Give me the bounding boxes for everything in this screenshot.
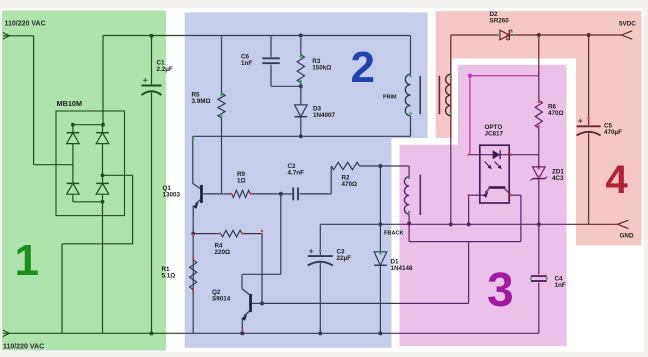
svg-text:1: 1 xyxy=(15,236,39,285)
svg-text:1N4007: 1N4007 xyxy=(313,112,336,119)
svg-text:GND: GND xyxy=(620,233,634,240)
svg-text:2: 2 xyxy=(351,43,375,92)
svg-text:S9014: S9014 xyxy=(212,296,231,303)
svg-text:MB10M: MB10M xyxy=(57,99,83,108)
svg-text:3: 3 xyxy=(487,264,514,317)
svg-text:110/220 VAC: 110/220 VAC xyxy=(3,344,44,351)
svg-text:13003: 13003 xyxy=(163,192,181,199)
svg-text:5VDC: 5VDC xyxy=(619,20,636,27)
svg-text:5.1Ω: 5.1Ω xyxy=(162,273,176,280)
svg-text:470Ω: 470Ω xyxy=(548,110,564,117)
svg-text:2.2µF: 2.2µF xyxy=(157,66,173,73)
svg-text:1nF: 1nF xyxy=(555,282,566,289)
svg-text:470µF: 470µF xyxy=(604,129,622,136)
svg-text:4C3: 4C3 xyxy=(552,175,564,182)
svg-text:4: 4 xyxy=(606,158,629,202)
svg-text:220Ω: 220Ω xyxy=(215,249,231,256)
svg-text:3.9MΩ: 3.9MΩ xyxy=(192,98,211,105)
svg-text:1N4148: 1N4148 xyxy=(391,265,414,272)
svg-text:150kΩ: 150kΩ xyxy=(312,65,331,72)
svg-text:22µF: 22µF xyxy=(337,255,352,262)
svg-text:110/220 VAC: 110/220 VAC xyxy=(5,21,46,28)
svg-text:1Ω: 1Ω xyxy=(237,178,246,185)
svg-text:SR260: SR260 xyxy=(490,18,510,25)
svg-text:1nF: 1nF xyxy=(241,60,252,67)
svg-text:470Ω: 470Ω xyxy=(342,181,358,188)
svg-text:4.7nF: 4.7nF xyxy=(288,170,305,177)
svg-text:FBACK: FBACK xyxy=(384,231,404,237)
svg-text:PRIM: PRIM xyxy=(383,94,397,100)
svg-text:JC817: JC817 xyxy=(485,130,504,137)
